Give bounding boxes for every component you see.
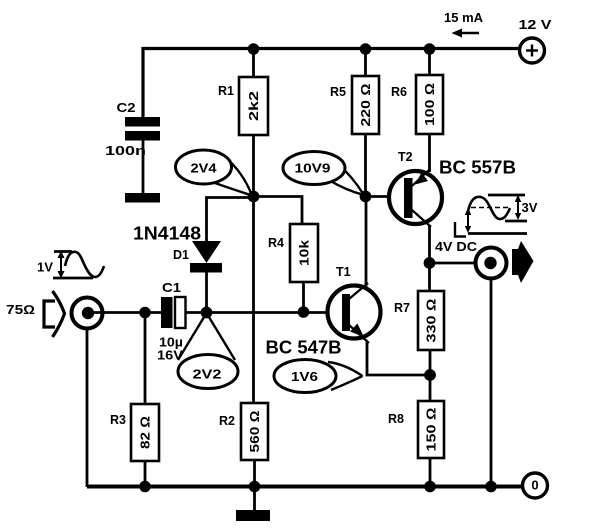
svg-text:2k2: 2k2 [246,91,261,121]
junction dot rail-R8 [424,481,436,493]
resistor R2 [219,403,268,487]
svg-text:330 Ω: 330 Ω [424,298,439,342]
diode D1 1N4148 [133,223,222,273]
svg-text:BC 547B: BC 547B [266,337,342,358]
wire T1 emitter to R7/R8 node [367,341,430,375]
balloon 10V9 [283,152,364,196]
svg-text:220 Ω: 220 Ω [358,83,373,126]
resistor R7 [394,291,444,402]
junction dot rail-R3 [139,481,151,493]
svg-text:R6: R6 [391,85,407,99]
wire rail to ground symbol [253,487,256,511]
svg-text:R4: R4 [268,236,284,250]
output arrow [512,241,534,283]
wire +12V top rail [143,49,520,119]
svg-text:T2: T2 [398,150,413,164]
wire input shell to ground rail [86,328,89,487]
wire node A to R4 [254,197,303,226]
wire C2 to ground [142,140,145,194]
junction dot R4-base wire [298,306,310,318]
resistor R8 [388,401,444,487]
svg-text:1V: 1V [37,260,53,275]
junction dot rail-R2 [249,481,261,493]
balloon 1V6 [274,360,363,393]
svg-text:2V4: 2V4 [191,162,217,176]
current arrow 15 mA [444,10,484,38]
wire input pin to C1 [93,311,161,314]
svg-text:R8: R8 [388,412,404,426]
resistor R5 [330,49,379,197]
svg-text:C2: C2 [117,101,136,115]
svg-text:82 Ω: 82 Ω [138,416,153,449]
input waveform icon 1V [37,251,104,279]
terminal +12V [519,18,553,63]
wire T2 collector down [428,225,431,292]
node 4V DC junction [424,257,436,269]
bottom ground rail [87,485,522,489]
svg-text:10k: 10k [297,239,312,266]
junction dot rail-R1 [248,43,260,55]
output connector (RCA socket) [435,239,507,279]
junction dot rail-R5 [360,43,372,55]
input connector (RCA socket) [72,298,103,329]
transistor T2 BC557B (PNP) [389,150,516,227]
node A junction (2V4 node) [248,191,260,203]
svg-text:R1: R1 [218,84,234,98]
capacitor C1 (electrolytic) [157,281,186,363]
ground bar under C2 [125,193,160,203]
capacitor C2 [105,101,160,158]
svg-text:75Ω: 75Ω [6,303,35,317]
balloon 2V2 [178,313,238,389]
node B junction (2V2 node) [201,307,213,319]
resistor R3 [110,312,159,487]
resistor R6 [391,49,443,172]
svg-text:100n: 100n [105,144,146,158]
wire node A to D1 [207,198,254,242]
svg-text:D1: D1 [173,248,189,262]
svg-text:1N4148: 1N4148 [133,223,201,244]
svg-text:560 Ω: 560 Ω [247,410,262,452]
wire node A down to R2 (crosses base wire, no dot) [252,197,255,405]
node 10V9 junction [360,191,372,203]
output waveform icon 3V [455,195,538,237]
transistor T1 BC547B (NPN) [266,265,381,358]
balloon 2V4 [176,150,253,196]
svg-text:R5: R5 [330,85,346,99]
ground bar bottom [236,510,270,521]
wire 10V9 node down to T1 collector [365,197,368,288]
svg-text:100 Ω: 100 Ω [422,83,437,126]
svg-text:R7: R7 [394,301,410,315]
svg-text:R2: R2 [219,414,235,428]
svg-text:12 V: 12 V [519,18,553,32]
svg-text:15 mA: 15 mA [444,10,484,25]
wire 10V9 node to T2 base [366,195,405,198]
resistor R4 [268,224,318,312]
wire D1 to node B [205,272,208,312]
junction dot rail-output shell [485,481,497,493]
node 1V6 junction [424,369,436,381]
input arrow 75 ohm [6,291,65,337]
svg-text:R3: R3 [110,413,126,427]
terminal 0 [523,473,548,498]
svg-text:10V9: 10V9 [295,162,331,176]
svg-text:10µ: 10µ [159,336,183,350]
wire output tap to connector [430,262,478,265]
wire output shell to ground rail [490,279,493,488]
svg-text:2V2: 2V2 [193,368,222,382]
svg-text:C1: C1 [162,281,181,295]
svg-text:4V DC: 4V DC [435,239,478,254]
svg-text:3V: 3V [522,200,538,215]
resistor R1 [218,49,268,197]
svg-text:1V6: 1V6 [291,370,318,384]
junction dot input-R3 [139,307,151,319]
svg-text:150 Ω: 150 Ω [424,407,439,451]
svg-text:BC 557B: BC 557B [439,157,516,178]
svg-text:0: 0 [531,478,538,493]
wire C1 to T1 base [185,311,342,314]
junction dot rail-R6 [424,43,436,55]
svg-text:T1: T1 [336,265,351,279]
